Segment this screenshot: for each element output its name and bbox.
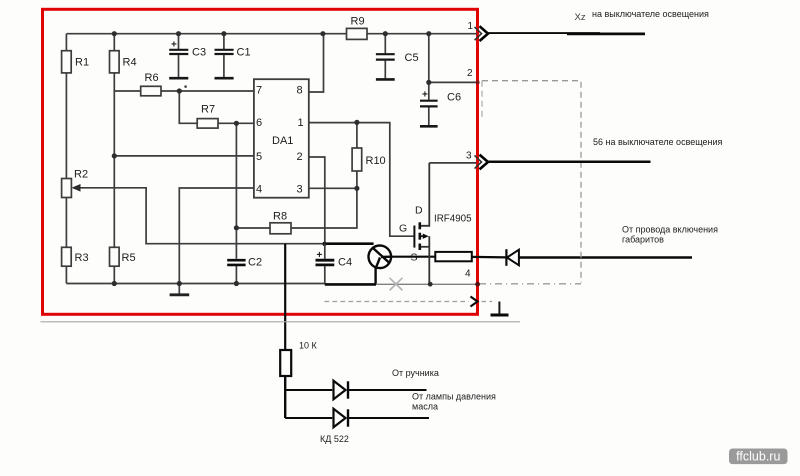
wire pin8 to rail <box>309 34 324 92</box>
diode D3 <box>334 409 346 428</box>
svg-text:2: 2 <box>297 151 303 163</box>
node ffclub badge <box>729 449 788 465</box>
node stray dot <box>184 85 187 88</box>
wire R1-R2-R3 vertical <box>65 34 67 284</box>
capacitor C3 <box>178 34 180 49</box>
capacitor C2 <box>227 259 245 262</box>
wire pin2 vertical <box>309 157 325 244</box>
svg-text:От провода включения: От провода включения <box>622 225 718 235</box>
svg-text:R8: R8 <box>273 210 287 222</box>
svg-text:R7: R7 <box>201 104 215 116</box>
resistor R4 <box>110 51 120 73</box>
connector 3 <box>475 155 482 168</box>
resistor R10 <box>352 148 362 171</box>
svg-text:R3: R3 <box>75 252 89 264</box>
svg-text:S: S <box>411 252 418 264</box>
capacitor C1 <box>223 34 225 49</box>
svg-text:10 К: 10 К <box>299 341 318 351</box>
transistor Q1 <box>369 245 392 268</box>
wire ruchnik out <box>348 389 427 391</box>
wire pin5 <box>114 155 254 157</box>
dashed box <box>482 81 581 283</box>
resistor R3 <box>62 247 72 266</box>
svg-text:6: 6 <box>256 117 262 129</box>
svg-text:габаритов: габаритов <box>622 234 664 244</box>
wire source line across red <box>472 256 507 259</box>
wire C6 branch <box>429 34 478 83</box>
diode D1 gabarity <box>505 249 507 266</box>
wire pin3 to R10 <box>309 187 357 189</box>
wire output 1 <box>487 32 601 34</box>
svg-text:C4: C4 <box>338 257 352 269</box>
svg-text:3: 3 <box>297 183 303 195</box>
wire dashed to ground connector 4 <box>325 301 470 303</box>
resistor R8 <box>270 223 291 234</box>
divider line <box>41 321 521 323</box>
wire Q1 collector to source resistor <box>391 256 435 258</box>
svg-text:C6: C6 <box>447 92 461 104</box>
connector 1 <box>475 27 482 40</box>
svg-text:+: + <box>317 250 323 261</box>
wire R4-R5 vertical <box>113 34 115 284</box>
capacitor C4 <box>324 244 326 259</box>
svg-text:C1: C1 <box>237 47 251 59</box>
wire thick annotation bottom <box>325 283 376 286</box>
wire gray bottom inner <box>376 283 478 285</box>
wire R6 junction down to R7 <box>179 91 254 123</box>
wire top supply rail <box>66 33 477 35</box>
svg-text:R9: R9 <box>351 16 365 28</box>
wire R7 junction down C2 <box>235 123 237 258</box>
svg-text:DA1: DA1 <box>272 135 293 147</box>
wire R6 to pin7 <box>114 90 254 92</box>
node cross mark <box>390 278 403 291</box>
wire 10K drop <box>284 244 286 350</box>
wire output 3 <box>487 160 651 163</box>
wire pin4 to ground <box>179 188 254 284</box>
wire R10 vertical to R8 <box>236 122 357 228</box>
svg-text:R10: R10 <box>366 155 386 167</box>
resistor R6 <box>141 86 161 96</box>
wire oil branch <box>285 417 332 419</box>
potentiometer R2 <box>62 179 72 198</box>
wire R2 wiper to pin2 <box>74 188 325 244</box>
resistor R7 <box>197 119 218 129</box>
resistor R1 <box>62 51 72 73</box>
svg-text:Xz: Xz <box>575 12 586 23</box>
svg-text:на выключателе освещения: на выключателе освещения <box>592 9 709 19</box>
svg-text:C2: C2 <box>248 257 262 269</box>
svg-text:От лампы давления: От лампы давления <box>412 392 496 402</box>
svg-text:R1: R1 <box>75 57 89 69</box>
svg-text:D: D <box>415 204 423 216</box>
svg-text:1: 1 <box>468 21 474 32</box>
red highlight box <box>43 9 478 314</box>
op-amp U1 DA1 box <box>254 79 309 198</box>
resistor R5 <box>110 247 120 266</box>
svg-text:7: 7 <box>256 85 262 97</box>
diode D2 <box>334 381 346 400</box>
svg-text:масла: масла <box>412 402 438 412</box>
svg-text:8: 8 <box>297 85 303 97</box>
svg-text:56 на выключателе освещения: 56 на выключателе освещения <box>593 137 723 147</box>
capacitor C6 <box>428 82 430 99</box>
wire connector3 <box>429 162 476 164</box>
transistor Q2 IRF4905 <box>413 226 415 248</box>
svg-text:5: 5 <box>256 151 262 163</box>
wire gabarity <box>519 256 692 258</box>
svg-text:+: + <box>171 40 177 51</box>
svg-text:R4: R4 <box>123 57 137 69</box>
svg-text:R5: R5 <box>122 252 136 264</box>
ground right <box>498 302 500 314</box>
svg-text:4: 4 <box>256 183 262 195</box>
node wiper arrowhead <box>72 184 81 192</box>
wire ground rail <box>66 283 325 285</box>
svg-text:IRF4905: IRF4905 <box>434 214 472 225</box>
svg-text:R6: R6 <box>145 72 159 84</box>
svg-text:G: G <box>399 223 407 235</box>
svg-text:2: 2 <box>467 68 473 79</box>
svg-text:ffclub.ru: ffclub.ru <box>736 450 780 464</box>
svg-text:1: 1 <box>298 117 304 129</box>
wire oil out <box>348 417 429 419</box>
ground <box>178 284 180 295</box>
svg-text:R2: R2 <box>74 169 88 181</box>
svg-text:3: 3 <box>466 150 472 161</box>
svg-text:4: 4 <box>465 268 471 279</box>
resistor R9 <box>347 28 368 39</box>
svg-text:КД 522: КД 522 <box>320 434 349 444</box>
svg-text:C5: C5 <box>405 52 419 64</box>
wire ruchnik branch <box>285 389 332 391</box>
wire 10K lower <box>284 376 286 418</box>
capacitor C5 <box>384 34 386 54</box>
svg-text:C3: C3 <box>192 47 206 59</box>
wire thick annotation top <box>324 242 374 245</box>
svg-text:От ручника: От ручника <box>392 368 439 378</box>
svg-text:+: + <box>422 90 428 101</box>
wire pin1 to gate <box>309 123 415 237</box>
resistor source R11 <box>435 252 472 261</box>
node junction dots <box>112 31 117 36</box>
resistor 10K <box>280 350 291 376</box>
